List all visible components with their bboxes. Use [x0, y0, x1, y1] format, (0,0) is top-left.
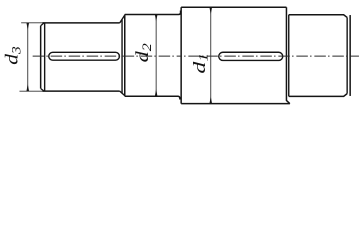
step slant left-to-middle top: [120, 15, 125, 23]
svg-text:d2: d2: [133, 43, 155, 62]
left end chamfer projection line: [44, 23, 46, 91]
dimension line d2: [155, 14, 157, 96]
right step chamfer projection line: [288, 15, 290, 97]
big section d1 left face: [180, 7, 182, 103]
arrow d3 up: [26, 23, 29, 30]
arrow d2 up: [155, 14, 158, 21]
dimension line d3: [27, 23, 29, 91]
extension line top for d3: [21, 22, 42, 24]
right section bottom line with chamfer slant: [289, 94, 347, 97]
keyway slot on left section: [49, 52, 120, 60]
left end bottom chamfer slant: [41, 88, 44, 91]
shaft left section d3 top line: [42, 22, 119, 24]
big section right face with bottom slant: [286, 7, 289, 103]
big section d1 bottom line: [181, 103, 290, 105]
extension line bottom for d3: [19, 90, 42, 92]
left end top chamfer slant: [41, 23, 44, 26]
arrow d1 down: [209, 96, 212, 103]
arrow d3 down: [26, 84, 29, 91]
shaft left section d3 bottom line: [42, 90, 119, 92]
arrow d2 down: [155, 89, 158, 96]
step face left-to-middle: [124, 14, 126, 96]
middle section d2 bottom line with right fillet: [125, 96, 180, 99]
centerline dash-dot right part: [181, 55, 359, 57]
keyway slot on big section: [219, 52, 283, 60]
right end face: [349, 15, 351, 96]
middle section d2 top line with right fillet: [125, 10, 181, 14]
step slant left-to-middle bottom: [120, 91, 125, 96]
left end face: [40, 26, 42, 89]
right section top line with chamfer slant: [289, 15, 347, 18]
step inner chamfer line: [121, 20, 123, 94]
right end chamfer projection line: [346, 17, 348, 93]
big section d1 top line: [181, 6, 286, 8]
centerline dash-dot: [33, 55, 182, 57]
arrow d1 up: [209, 7, 212, 14]
svg-text:d3: d3: [2, 46, 24, 64]
dimension line d1: [210, 7, 212, 103]
